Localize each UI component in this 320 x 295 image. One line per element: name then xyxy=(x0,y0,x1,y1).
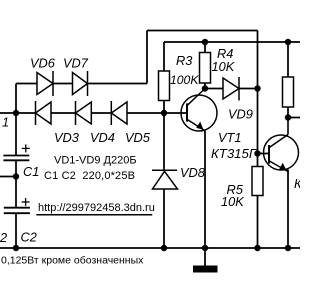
wire pin1 to left rail xyxy=(0,112,16,114)
svg-text:1: 1 xyxy=(2,115,9,130)
wire ground stem xyxy=(204,248,206,266)
wire R3 top lead xyxy=(163,42,165,71)
svg-text:100K: 100K xyxy=(170,73,199,87)
svg-text:2: 2 xyxy=(0,230,7,245)
svg-text:VD9: VD9 xyxy=(228,107,253,122)
wire right resistor top lead xyxy=(287,42,289,77)
node left rail / VD3 row xyxy=(13,110,19,116)
node R5 / bottom rail xyxy=(254,245,260,251)
svg-text:VD1-VD9 Д220Б: VD1-VD9 Д220Б xyxy=(54,155,137,167)
ground xyxy=(193,266,218,273)
resistor R3 xyxy=(159,71,170,101)
svg-text:10K: 10K xyxy=(221,194,244,209)
wire VT1 emitter down xyxy=(204,131,206,248)
svg-text:VT1: VT1 xyxy=(218,130,241,145)
svg-text:VD3: VD3 xyxy=(54,130,79,145)
wire mid-left stub xyxy=(0,176,16,178)
diode VD9 xyxy=(223,77,239,101)
wire left rail between C1 and C2 xyxy=(15,161,17,208)
wire VD9 row xyxy=(205,88,223,90)
resistor right (cut) xyxy=(283,77,294,107)
node VT1 emitter / bottom rail xyxy=(202,245,208,251)
svg-text:C2: C2 xyxy=(21,229,37,244)
node VD8 / bottom rail xyxy=(161,245,167,251)
svg-text:R3: R3 xyxy=(176,53,192,68)
capacitor C1 xyxy=(3,156,29,161)
arrow VT2 emitter xyxy=(279,163,286,171)
wire R4 top lead xyxy=(204,42,206,53)
diode VD8 xyxy=(152,170,178,189)
node left rail / bottom rail xyxy=(13,245,19,251)
svg-text:VD7: VD7 xyxy=(63,56,89,71)
node VT2 collector xyxy=(285,114,291,120)
svg-text:0,125Вт кроме обозначенных: 0,125Вт кроме обозначенных xyxy=(1,255,144,267)
wire VD8 bottom lead xyxy=(163,189,165,248)
capacitor C2 xyxy=(4,208,30,214)
wire bottom rail xyxy=(0,247,300,249)
wire left rail below C2 xyxy=(15,213,17,248)
node VT2 emitter / bottom rail xyxy=(285,245,291,251)
wire VT2 emitter down xyxy=(287,170,289,249)
wire vertical riser x=147 xyxy=(146,31,148,84)
wire right resistor bottom lead xyxy=(287,107,289,118)
svg-text:C1: C1 xyxy=(23,164,39,179)
svg-text:VD8: VD8 xyxy=(180,165,206,180)
diode VD5 xyxy=(111,101,127,125)
node VT2 base xyxy=(254,150,260,156)
polarity plus of C2 xyxy=(22,198,30,206)
polarity plus of C1 xyxy=(22,144,30,152)
wire VD3/VD4/VD5 row xyxy=(16,112,36,114)
svg-text:К: К xyxy=(294,176,300,191)
node R4 top xyxy=(202,39,208,45)
wire second rail y=41.5 xyxy=(164,41,300,43)
node VT1 collector xyxy=(202,85,208,91)
wire VT2 base xyxy=(258,153,270,155)
resistor R5 xyxy=(252,167,263,196)
diode VD7 xyxy=(73,71,88,96)
node right resistor top xyxy=(285,39,291,45)
svg-text:http://299792458.3dn.ru: http://299792458.3dn.ru xyxy=(38,202,155,214)
wire R3 bottom lead xyxy=(163,101,165,114)
wire top rail xyxy=(147,30,258,32)
node left rail / stub xyxy=(13,173,19,179)
diode VD4 xyxy=(76,101,92,125)
arrow VT1 emitter xyxy=(196,122,203,130)
transistor VT1 xyxy=(181,89,217,132)
transistor VT2 xyxy=(264,118,299,172)
underline of url xyxy=(36,214,152,216)
wire VD8 top lead xyxy=(163,113,165,170)
wire right rail x=257.5 xyxy=(257,31,259,89)
svg-text:10K: 10K xyxy=(212,59,235,74)
diode VD6 xyxy=(37,71,53,96)
svg-text:VD6: VD6 xyxy=(30,56,56,71)
diode VD3 xyxy=(36,101,52,125)
wire left rail top segment xyxy=(15,84,17,156)
svg-text:VD4: VD4 xyxy=(90,130,115,145)
resistor R4 xyxy=(200,53,211,84)
node R3 / VD3 row xyxy=(161,110,167,116)
node VD9 cathode xyxy=(254,85,260,91)
wire collector node to right edge xyxy=(288,117,300,119)
svg-text:КТ315Г: КТ315Г xyxy=(211,146,257,161)
wire R4 bottom lead xyxy=(204,83,206,89)
wire VD6/VD7 row xyxy=(16,83,37,85)
svg-text:С1 С2 220,0*25В: С1 С2 220,0*25В xyxy=(44,170,135,182)
svg-text:VD5: VD5 xyxy=(125,130,151,145)
